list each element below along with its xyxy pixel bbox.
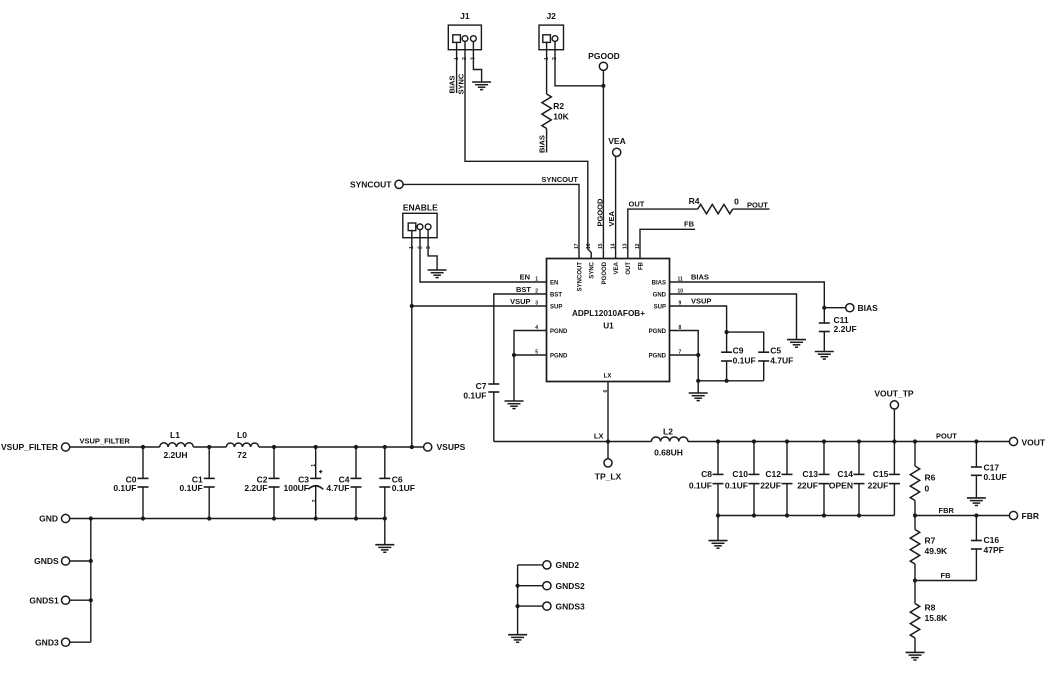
svg-text:2.2UF: 2.2UF [244,483,267,493]
pin numbers J1 1 2 3 [454,57,477,60]
capacitor C5 [727,332,794,381]
wire GND3 [70,641,91,643]
wire VSUP rail segment A [70,446,160,448]
wire SYNCOUT to U1 pin17 [403,184,579,258]
inductor L0 [226,430,258,460]
svg-text:GNDS: GNDS [34,556,59,566]
wire LX rail [494,441,652,443]
svg-text:VEA: VEA [608,136,625,146]
junction C16 top FBR [974,513,978,517]
svg-text:SYNCOUT: SYNCOUT [541,175,578,184]
svg-text:OUT: OUT [629,199,645,208]
svg-text:2.2UF: 2.2UF [834,324,857,334]
wire FBR to R7 [914,516,916,530]
junction GNDS3 [516,604,520,608]
junction C6 bottom [383,516,387,520]
wire J1 pin3 to ground [473,42,481,83]
svg-text:VOUT: VOUT [1022,438,1046,448]
junction C3 bottom [314,516,318,520]
svg-text:VSUP_FILTER: VSUP_FILTER [80,436,131,445]
junction C6 top [383,445,387,449]
svg-text:BIAS: BIAS [448,76,457,94]
junction C0 bottom [141,516,145,520]
junction C12 top rail [785,439,789,443]
wire U1 FB pin12 [640,229,695,258]
junction C9 top [725,330,729,334]
svg-text:VSUP: VSUP [691,297,711,306]
svg-text:2.2UH: 2.2UH [163,450,187,460]
svg-text:L0: L0 [237,430,247,440]
wire VSUP rail segment C [259,446,424,448]
svg-text:OUT: OUT [626,262,632,275]
capacitor C7 [463,381,499,401]
svg-text:C10: C10 [732,469,748,479]
terminal SYNCOUT [395,180,403,188]
junction GNDS [89,559,93,563]
svg-text:PGND: PGND [550,329,568,335]
wire R4 to POUT [733,208,770,210]
svg-text:0.1UF: 0.1UF [984,472,1007,482]
wire U1 PGND pins 4,5 to ground [514,331,547,402]
svg-text:0: 0 [734,197,739,207]
svg-text:22UF: 22UF [868,480,889,490]
svg-text:VEA: VEA [614,261,620,274]
wire R6 to FBR [914,501,916,516]
svg-text:J1: J1 [460,11,470,21]
svg-text:15: 15 [598,243,604,249]
svg-text:BIAS: BIAS [858,303,879,313]
wire PGOOD to U1 pin15 [602,70,604,258]
svg-text:72: 72 [237,450,247,460]
junction C1 top [207,445,211,449]
wire ENABLE pin1 to VSUPS rail [411,230,413,447]
capacitor C14 [829,442,865,516]
svg-text:BIAS: BIAS [538,135,547,153]
terminal VOUT [1009,437,1017,445]
svg-text:1: 1 [535,277,538,283]
inductor L1 [160,430,194,460]
svg-text:22UF: 22UF [797,480,818,490]
wire GNDS [70,560,91,562]
svg-text:FBR: FBR [1022,511,1039,521]
ground stub (left bank) [384,519,386,545]
ground (left cap bank) [375,544,394,546]
junction C9 bottom [725,379,729,383]
U1 right pin numbers [678,277,684,356]
capacitor C8 [689,442,724,516]
capacitor C11 [819,308,857,352]
svg-text:LX: LX [604,374,612,380]
wire TP_LX stub [607,442,609,459]
junction C13 top rail [822,439,826,443]
wire ENABLE pin3 to ground [428,229,437,270]
wire VSUP rail segment B [193,446,226,448]
junction C0 top [141,445,145,449]
capacitor C12 [760,442,792,516]
wire VOUT rail [688,441,1010,443]
svg-text:VEA: VEA [607,210,616,226]
svg-text:PGOOD: PGOOD [602,261,608,284]
junction C4 top [354,445,358,449]
connector J2 [539,11,564,50]
svg-text:R8: R8 [925,602,936,612]
svg-text:GNDS2: GNDS2 [556,581,586,591]
junction BIAS [822,306,826,310]
svg-text:GNDS1: GNDS1 [29,595,59,605]
pin numbers J2 1 2 [544,57,558,60]
wire FB node to R8 [914,581,916,604]
svg-text:BIAS: BIAS [652,280,666,286]
wire GND2 [518,564,543,566]
svg-text:0.1UF: 0.1UF [113,483,136,493]
junction FBR [913,513,917,517]
capacitor C16 [971,516,1004,581]
svg-text:VSUP_FILTER: VSUP_FILTER [1,442,58,452]
ground (J1 pin3) [472,81,491,83]
junction J2-PGOOD [601,84,605,88]
wire C9 C5 ground rail [698,380,764,382]
ground (U1 right PGND) [689,392,708,394]
inductor L2 [651,426,688,457]
svg-text:LX: LX [594,431,604,440]
ground (R8) [906,651,925,653]
svg-text:PGOOD: PGOOD [595,198,604,227]
wire FBR [915,515,1009,517]
svg-text:49.9K: 49.9K [925,546,949,556]
svg-text:VSUP: VSUP [510,297,530,306]
junction C12 bottom rail [785,513,789,517]
svg-text:C14: C14 [837,469,853,479]
wire BIAS (U1 pin11) [670,282,825,308]
junction C3 top [314,445,318,449]
junction C1 bottom [207,516,211,520]
terminal GNDS1 [62,596,70,604]
terminal GNDS [62,557,70,565]
wire FB node to C16 [915,580,976,582]
svg-text:C8: C8 [701,469,712,479]
svg-text:12: 12 [635,243,641,249]
wire R2 to BIAS net [546,129,548,153]
svg-text:C16: C16 [984,535,1000,545]
junction C17 top [974,439,978,443]
junction C15 top rail [892,439,896,443]
wire BST (U1 pin2 to C7) [494,294,547,384]
svg-text:L1: L1 [170,430,180,440]
U1 left pin numbers [535,277,538,356]
junction C10 top rail [752,439,756,443]
wire U1 PGND pins 8,7 [670,331,699,381]
capacitor C17 [971,442,1007,498]
svg-text:C13: C13 [802,469,818,479]
pin numbers ENABLE 1 2 3 [409,246,432,249]
svg-text:4.7UF: 4.7UF [770,355,793,365]
svg-text:C15: C15 [873,469,889,479]
terminal PGOOD [599,62,607,70]
ground (U1 left PGND) [505,400,524,402]
terminal GND2 [543,561,551,569]
wire VSUP (U1 pin9) [670,306,727,332]
U1 top pin names (rotated) [577,261,644,291]
wire cap bank ground stub [717,516,719,541]
svg-text:J2: J2 [546,11,556,21]
terminal GND [62,514,70,522]
U1 right pin names [649,280,667,359]
svg-text:SUP: SUP [550,304,562,310]
svg-text:SYNCOUT: SYNCOUT [350,180,392,190]
svg-text:0.1UF: 0.1UF [725,480,748,490]
wire rail to R6 [914,442,916,467]
svg-text:ADPL12010AFOB+: ADPL12010AFOB+ [572,309,645,318]
svg-text:47PF: 47PF [984,545,1004,555]
svg-text:SYNC: SYNC [590,261,596,278]
terminal TP_LX [604,459,612,467]
svg-text:C17: C17 [984,462,1000,472]
svg-text:GNDS3: GNDS3 [556,601,586,611]
svg-text:U1: U1 [603,322,614,331]
wire BIAS to terminal [824,307,845,309]
junction C13 bottom rail [822,513,826,517]
resistor R8 [910,602,948,638]
U1 left pin names [550,280,568,359]
capacitor C6 [379,447,415,519]
svg-text:EN: EN [520,272,530,281]
svg-text:PGOOD: PGOOD [588,51,620,61]
junction C2 top [272,445,276,449]
svg-text:17: 17 [574,243,580,249]
wire J2 pin2 to PGOOD [555,41,603,86]
capacitor C3 (polarized) [283,447,323,519]
svg-text:L2: L2 [663,426,673,436]
svg-text:POUT: POUT [747,200,768,209]
wire R8 to ground [914,638,916,652]
terminal GNDS2 [543,582,551,590]
wire C7 to LX rail [493,392,495,442]
svg-text:R2: R2 [553,101,564,111]
wire GNDS column [90,519,92,643]
capacitor C0 [113,447,148,519]
terminal VEA [613,148,621,156]
svg-text:PGND: PGND [550,353,568,359]
capacitor C4 [326,447,361,519]
svg-text:BST: BST [550,292,562,298]
svg-text:BST: BST [516,285,531,294]
wire GNDS3 [518,605,543,607]
svg-text:0: 0 [925,483,930,493]
svg-text:PGND: PGND [649,329,667,335]
svg-text:2: 2 [312,499,318,502]
wire GNDS1 [70,599,91,601]
wire VEA to U1 pin14 [615,156,617,258]
ground (GND2 group) [508,634,527,636]
ground (U1 GND pin) [787,339,806,341]
svg-text:14: 14 [610,243,616,249]
resistor R6 [910,466,935,501]
svg-text:PGND: PGND [649,353,667,359]
junction ENABLE pin1 / VSUPS rail [410,445,414,449]
junction C14 bottom rail [857,513,861,517]
U1 top pin numbers (rotated) [574,243,641,249]
svg-text:0.68UH: 0.68UH [654,447,683,457]
svg-text:0.1UF: 0.1UF [392,483,415,493]
terminal VSUP_FILTER [62,443,70,451]
wire output cap ground rail [718,515,894,517]
resistor R4 [689,196,733,214]
svg-text:VOUT_TP: VOUT_TP [874,389,914,399]
resistor R7 [910,530,948,565]
junction LX [606,439,610,443]
terminal VSUPS [424,443,432,451]
wire GND (U1 pin10) [670,294,797,340]
junction C4 bottom [354,516,358,520]
svg-text:FBR: FBR [939,506,955,515]
svg-text:100UF: 100UF [283,483,309,493]
junction C2 bottom [272,516,276,520]
svg-text:R4: R4 [689,196,700,206]
svg-text:C7: C7 [476,381,487,391]
terminal VOUT_TP [890,401,898,409]
svg-text:FB: FB [638,261,644,270]
svg-text:FB: FB [941,571,952,580]
junction R6 top [913,439,917,443]
junction ENABLE pin1 / SUP [410,304,414,308]
terminal FBR [1009,511,1017,519]
wire J1 pin2 SYNC [465,41,591,259]
svg-text:10K: 10K [553,112,569,122]
terminal GND3 [62,638,70,646]
wire J1 pin1 BIAS stub [456,42,458,93]
svg-text:TP_LX: TP_LX [595,472,622,482]
wire PGND ground stub [697,381,699,393]
connector J1 [448,11,481,50]
terminal BIAS [846,304,854,312]
svg-text:VSUPS: VSUPS [437,442,466,452]
junction GNDS column top [89,516,93,520]
svg-text:GND2: GND2 [556,560,580,570]
capacitor C13 [797,442,829,516]
capacitor C10 [725,442,760,516]
ground (output cap bank) [709,540,728,542]
wire VSUP (rail to U1 pin3) [412,305,547,307]
terminal GNDS3 [543,602,551,610]
svg-text:GND: GND [39,514,58,524]
svg-text:4.7UF: 4.7UF [326,483,349,493]
wire U1 LX pin6 [607,382,609,442]
wire GNDS2 [518,585,543,587]
svg-text:BIAS: BIAS [691,272,709,281]
svg-text:0.1UF: 0.1UF [463,390,486,400]
svg-text:C5: C5 [770,345,781,355]
svg-text:R7: R7 [925,536,936,546]
junction C10 bottom rail [752,513,756,517]
junction FB node [913,578,917,582]
svg-text:15.8K: 15.8K [925,613,949,623]
capacitor C1 [180,447,215,519]
connector ENABLE [403,202,438,237]
junction PGND left [512,353,516,357]
wire R7 to FB node [914,564,916,581]
junction C8 top rail [716,439,720,443]
wire EN (ENABLE pin2 to U1 pin1) [420,229,547,282]
svg-text:16: 16 [586,243,592,249]
wire GND rail [70,518,385,520]
capacitor C15 [868,442,900,516]
junction GNDS2 [516,584,520,588]
svg-text:13: 13 [623,243,629,249]
svg-text:R6: R6 [925,472,936,482]
junction GNDS1 [89,598,93,602]
junction C14 top rail [857,439,861,443]
svg-text:0.1UF: 0.1UF [689,480,712,490]
svg-text:1: 1 [311,464,317,467]
svg-text:22UF: 22UF [760,480,781,490]
wire U1 OUT pin13 [628,209,698,258]
capacitor C2 [244,447,279,519]
ground (C11) [815,351,834,353]
wire J2 pin1 to R2 [546,42,548,94]
svg-text:EN: EN [550,280,558,286]
svg-text:0.1UF: 0.1UF [180,483,203,493]
junction PGND right [696,353,700,357]
svg-text:OPEN: OPEN [829,480,853,490]
resistor R2 [542,94,570,129]
junction C8 bottom rail [716,513,720,517]
svg-text:GND3: GND3 [35,637,59,647]
svg-text:SYNCOUT: SYNCOUT [577,262,583,292]
svg-text:0.1UF: 0.1UF [733,355,756,365]
wire VOUT_TP stub [893,409,895,442]
svg-text:C12: C12 [765,469,781,479]
svg-text:GND: GND [653,292,667,298]
ground (ENABLE pin3) [428,269,447,271]
svg-text:SUP: SUP [654,304,666,310]
svg-text:ENABLE: ENABLE [403,202,438,212]
capacitor C9 [721,332,756,381]
svg-text:POUT: POUT [936,432,957,441]
svg-text:C9: C9 [733,345,744,355]
ground (C17) [967,497,986,499]
op-amp U1 ADPL12010AFOB+ body [547,259,670,382]
wire GND2 column [517,565,519,635]
junction PGND ground rail [696,379,700,383]
svg-text:SYNC: SYNC [457,73,466,94]
svg-text:FB: FB [684,220,695,229]
